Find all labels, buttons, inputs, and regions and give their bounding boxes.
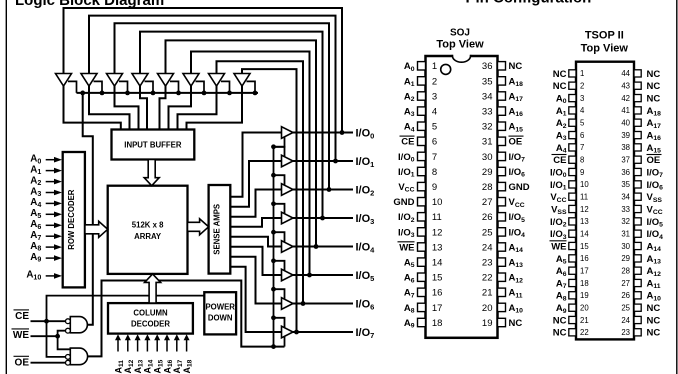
svg-text:NC: NC [647, 69, 661, 80]
svg-text:26: 26 [621, 291, 630, 300]
svg-text:ARRAY: ARRAY [134, 232, 162, 241]
svg-text:27: 27 [621, 279, 630, 288]
svg-text:24: 24 [621, 316, 630, 325]
svg-text:19: 19 [580, 291, 589, 300]
svg-text:GND: GND [393, 197, 414, 208]
svg-text:25: 25 [621, 304, 630, 313]
svg-text:14: 14 [432, 258, 443, 269]
svg-text:28: 28 [482, 182, 493, 193]
svg-text:3: 3 [580, 94, 584, 103]
svg-text:NC: NC [553, 69, 567, 80]
svg-text:CE: CE [553, 155, 566, 166]
svg-text:1: 1 [432, 61, 437, 72]
svg-text:GND: GND [509, 182, 530, 193]
svg-text:POWER: POWER [205, 303, 235, 312]
svg-text:DOWN: DOWN [208, 314, 233, 323]
svg-text:9: 9 [432, 182, 437, 193]
svg-text:16: 16 [580, 254, 589, 263]
svg-text:DECODER: DECODER [131, 320, 170, 329]
svg-text:19: 19 [482, 318, 493, 329]
svg-text:39: 39 [621, 131, 630, 140]
svg-text:WE: WE [13, 330, 29, 341]
svg-text:36: 36 [482, 61, 493, 72]
svg-text:Top View: Top View [436, 39, 484, 51]
svg-text:20: 20 [580, 304, 589, 313]
svg-text:17: 17 [432, 303, 443, 314]
svg-text:ROW DECODER: ROW DECODER [67, 189, 76, 250]
svg-text:NC: NC [553, 315, 567, 326]
svg-text:41: 41 [621, 106, 630, 115]
svg-text:1: 1 [580, 69, 584, 78]
svg-text:NC: NC [647, 303, 661, 314]
svg-text:26: 26 [482, 212, 493, 223]
svg-text:18: 18 [580, 279, 589, 288]
svg-text:31: 31 [621, 230, 630, 239]
svg-text:36: 36 [621, 168, 630, 177]
svg-text:29: 29 [482, 167, 493, 178]
svg-text:21: 21 [482, 288, 493, 299]
svg-text:15: 15 [432, 273, 443, 284]
svg-text:21: 21 [580, 316, 589, 325]
svg-text:40: 40 [621, 119, 630, 128]
svg-text:34: 34 [482, 91, 493, 102]
svg-text:5: 5 [580, 119, 585, 128]
svg-text:3: 3 [432, 91, 437, 102]
svg-text:30: 30 [621, 242, 630, 251]
svg-text:43: 43 [621, 82, 630, 91]
svg-text:7: 7 [432, 152, 437, 163]
svg-text:13: 13 [580, 217, 589, 226]
svg-text:OE: OE [509, 137, 523, 148]
svg-text:WE: WE [399, 242, 414, 253]
svg-text:32: 32 [482, 122, 493, 133]
svg-text:30: 30 [482, 152, 493, 163]
svg-text:32: 32 [621, 217, 630, 226]
svg-text:4: 4 [580, 106, 585, 115]
svg-text:16: 16 [432, 288, 443, 299]
svg-text:23: 23 [621, 328, 630, 337]
svg-text:10: 10 [432, 197, 443, 208]
svg-text:23: 23 [482, 258, 493, 269]
svg-text:2: 2 [580, 82, 584, 91]
svg-text:38: 38 [621, 143, 630, 152]
svg-text:29: 29 [621, 254, 630, 263]
svg-text:24: 24 [482, 242, 493, 253]
svg-text:33: 33 [621, 205, 630, 214]
svg-text:NC: NC [553, 81, 567, 92]
svg-text:33: 33 [482, 107, 493, 118]
svg-text:10: 10 [580, 180, 589, 189]
svg-text:INPUT BUFFER: INPUT BUFFER [124, 141, 182, 150]
svg-text:11: 11 [580, 193, 588, 202]
svg-text:13: 13 [432, 242, 443, 253]
svg-text:35: 35 [482, 76, 493, 87]
svg-text:22: 22 [580, 328, 589, 337]
svg-text:9: 9 [580, 168, 584, 177]
svg-text:20: 20 [482, 303, 493, 314]
svg-text:7: 7 [580, 143, 584, 152]
svg-text:NC: NC [647, 315, 661, 326]
svg-text:4: 4 [432, 107, 437, 118]
svg-text:Top View: Top View [581, 43, 629, 55]
svg-text:25: 25 [482, 227, 493, 238]
svg-text:27: 27 [482, 197, 493, 208]
svg-text:NC: NC [509, 318, 523, 329]
svg-text:31: 31 [482, 137, 493, 148]
svg-text:14: 14 [580, 230, 589, 239]
svg-text:6: 6 [432, 137, 437, 148]
svg-text:SOJ: SOJ [450, 28, 470, 39]
svg-text:11: 11 [432, 212, 442, 223]
svg-text:Pin Configuration: Pin Configuration [465, 0, 591, 7]
svg-text:NC: NC [647, 94, 661, 105]
svg-text:42: 42 [621, 94, 630, 103]
svg-text:512K x 8: 512K x 8 [132, 221, 164, 230]
svg-text:OE: OE [15, 357, 30, 368]
svg-text:12: 12 [580, 205, 589, 214]
svg-text:34: 34 [621, 193, 630, 202]
svg-text:NC: NC [647, 328, 661, 339]
svg-text:CE: CE [15, 311, 29, 322]
svg-text:15: 15 [580, 242, 589, 251]
svg-text:2: 2 [432, 76, 437, 87]
svg-text:TSOP II: TSOP II [585, 30, 624, 42]
svg-text:28: 28 [621, 267, 630, 276]
svg-text:44: 44 [621, 69, 630, 78]
svg-text:37: 37 [621, 156, 630, 165]
svg-text:22: 22 [482, 273, 493, 284]
svg-text:OE: OE [647, 155, 661, 166]
svg-text:CE: CE [401, 137, 414, 148]
svg-text:8: 8 [580, 156, 584, 165]
svg-text:6: 6 [580, 131, 584, 140]
svg-text:35: 35 [621, 180, 630, 189]
svg-text:17: 17 [580, 267, 589, 276]
svg-text:NC: NC [553, 328, 567, 339]
svg-text:18: 18 [432, 318, 443, 329]
svg-text:NC: NC [509, 61, 523, 72]
svg-text:5: 5 [432, 122, 437, 133]
svg-text:COLUMN: COLUMN [133, 309, 168, 318]
svg-text:12: 12 [432, 227, 443, 238]
svg-text:WE: WE [551, 241, 566, 252]
svg-text:8: 8 [432, 167, 437, 178]
svg-text:SENSE AMPS: SENSE AMPS [213, 204, 222, 255]
svg-text:NC: NC [647, 81, 661, 92]
